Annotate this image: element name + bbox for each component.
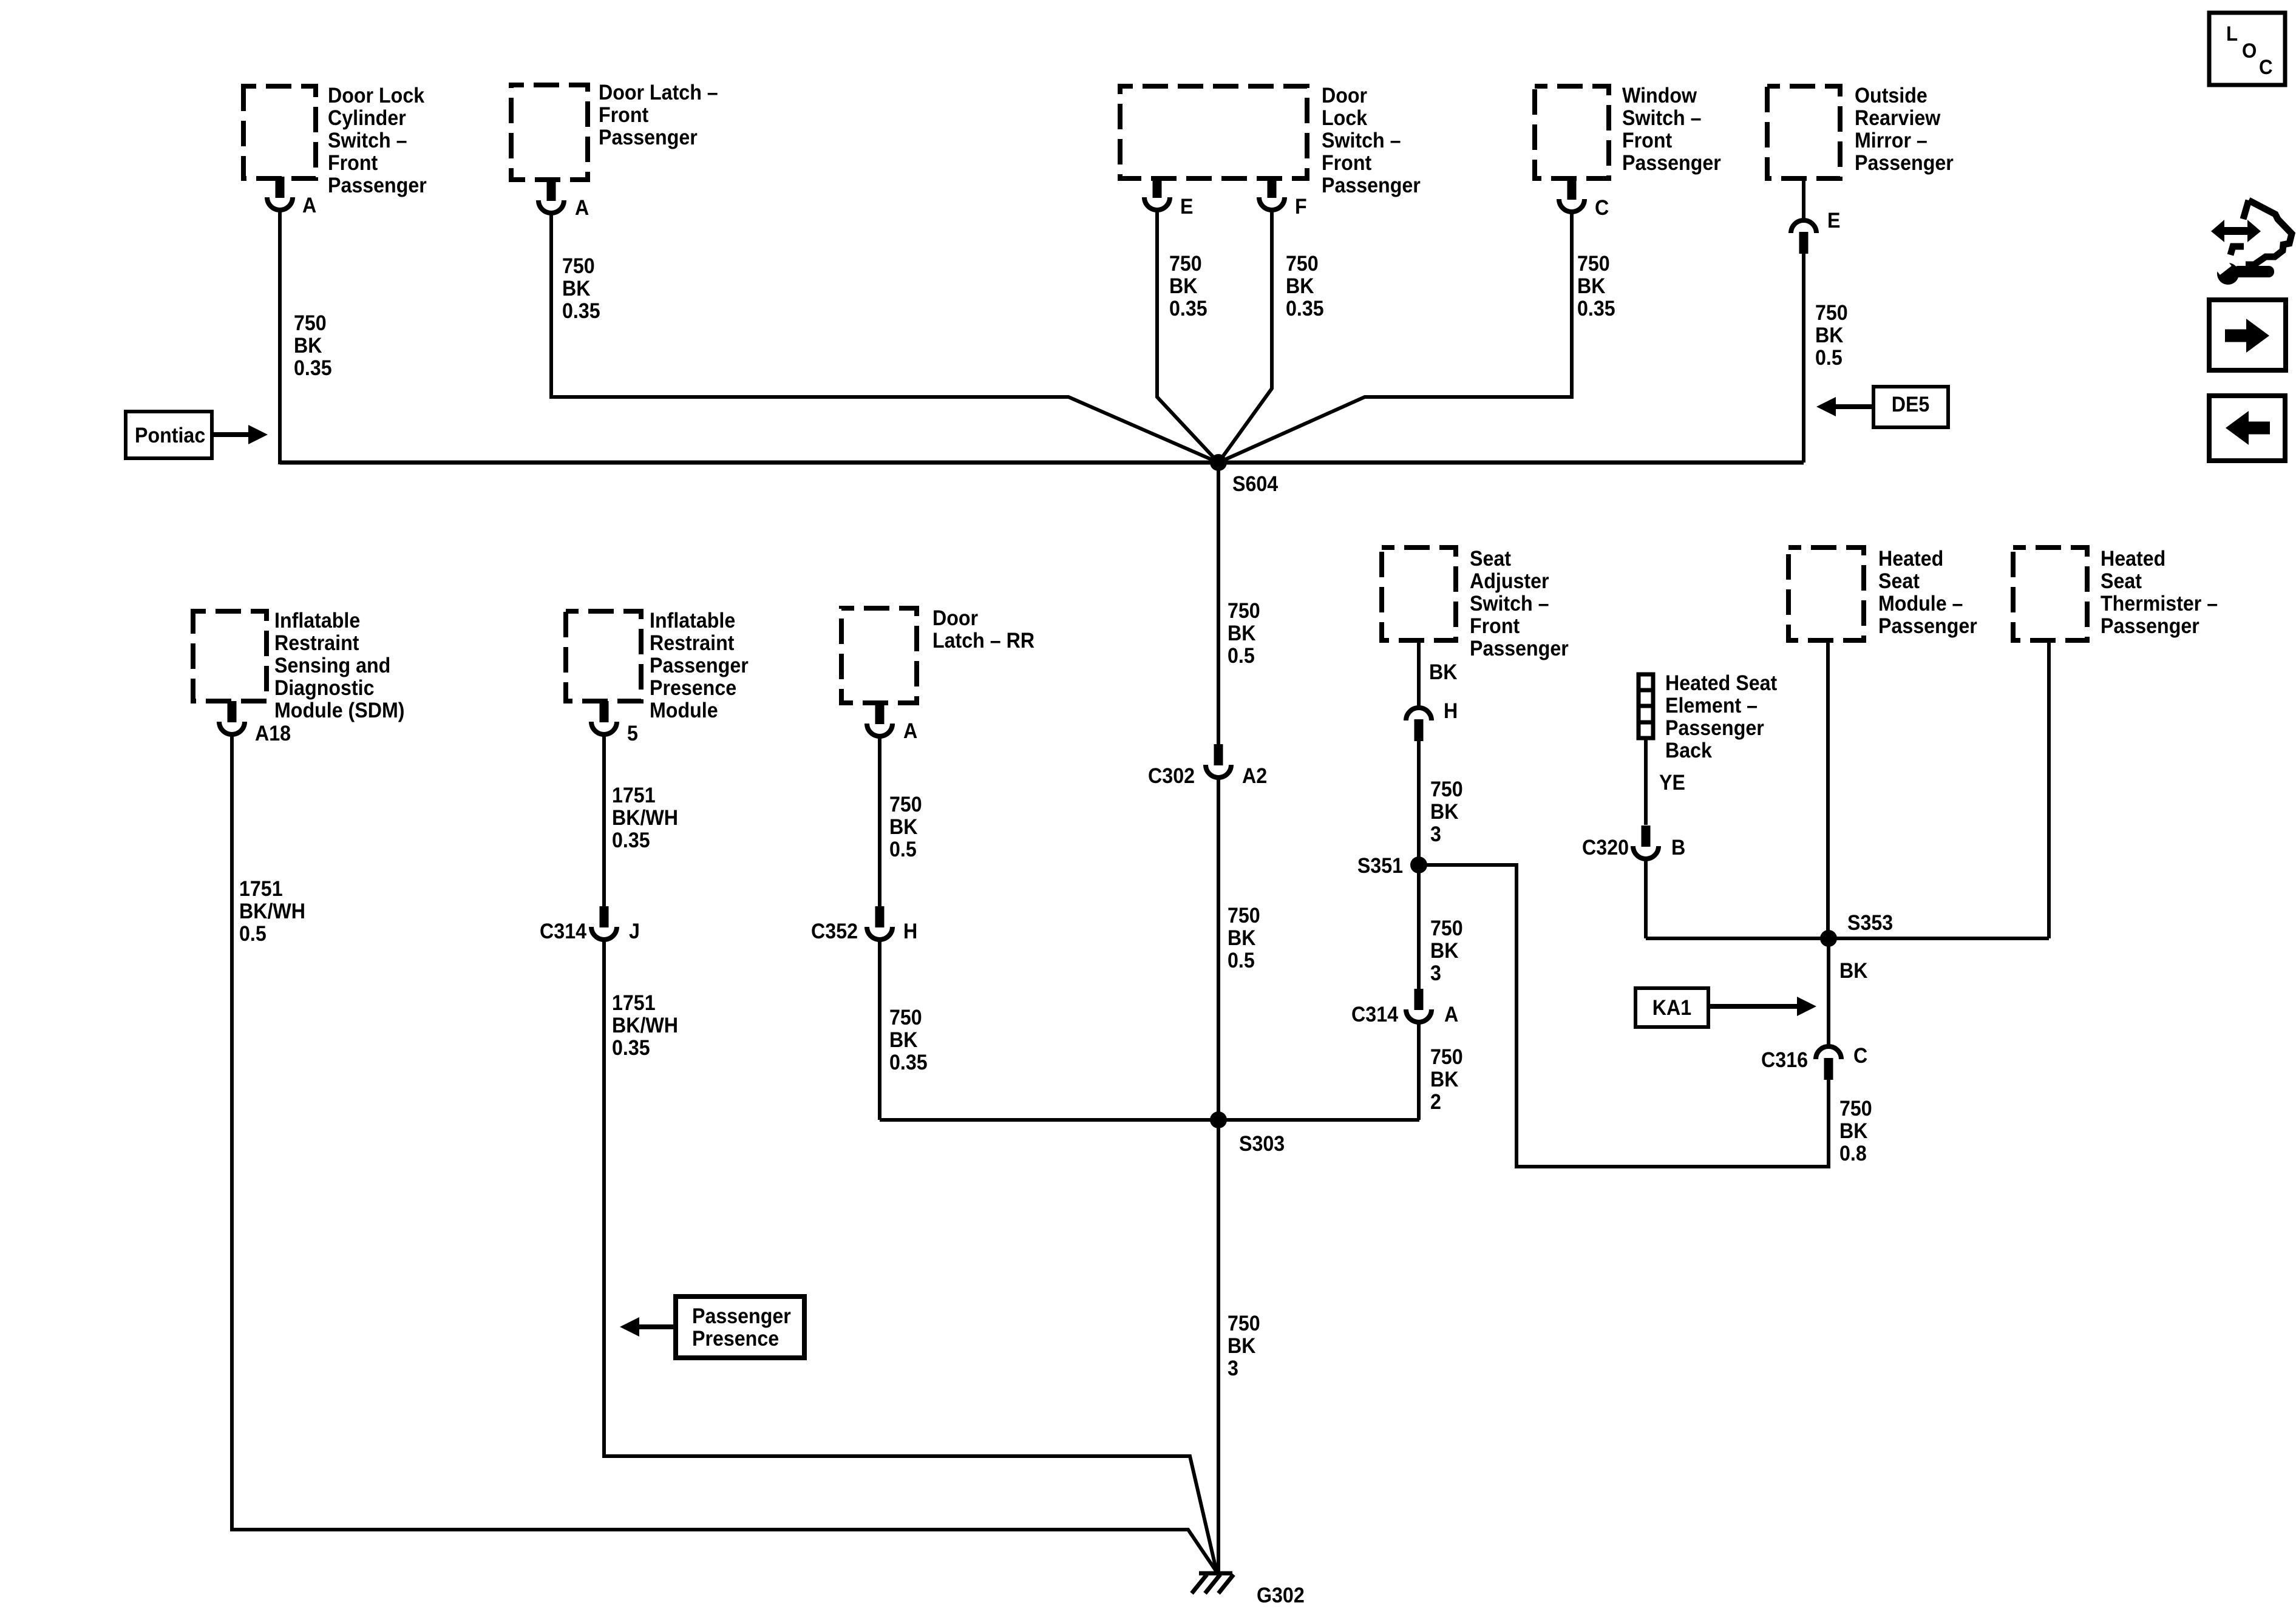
svg-text:750: 750 xyxy=(1815,302,1848,325)
wire BK from splice S353 down to connector C316 xyxy=(1829,938,1867,1046)
svg-text:750: 750 xyxy=(1430,1046,1463,1070)
svg-text:Passenger: Passenger xyxy=(1665,717,1764,741)
svg-text:Door: Door xyxy=(932,607,978,631)
svg-text:Front: Front xyxy=(1322,152,1371,175)
svg-text:E: E xyxy=(1827,209,1840,233)
svg-text:Module (SDM): Module (SDM) xyxy=(274,699,405,723)
wire 750 BK 3 from pin H down to splice S351 xyxy=(1419,741,1463,865)
svg-text:Sensing and: Sensing and xyxy=(274,654,390,678)
wire 750 BK 0.5 from Door Latch RR pin A down to connector C352 xyxy=(880,736,922,926)
svg-text:B: B xyxy=(1671,836,1685,860)
wire from Heated Seat Module down to splice S353 xyxy=(1826,640,1830,938)
component box: Inflatable Restraint Sensing and Diagnostic Module (SDM) xyxy=(193,609,405,723)
svg-text:Door Latch –: Door Latch – xyxy=(599,81,718,105)
svg-text:Passenger: Passenger xyxy=(1878,615,1977,639)
svg-text:Passenger: Passenger xyxy=(650,654,749,678)
svg-text:750: 750 xyxy=(889,793,922,817)
svg-text:3: 3 xyxy=(1430,823,1441,847)
svg-text:A2: A2 xyxy=(1242,765,1267,788)
svg-text:BK: BK xyxy=(1430,940,1458,963)
svg-text:A18: A18 xyxy=(255,722,291,746)
svg-text:Diagnostic: Diagnostic xyxy=(274,677,375,700)
splice S351 xyxy=(1357,855,1427,878)
connector C314 pin J xyxy=(540,906,640,943)
svg-text:YE: YE xyxy=(1659,771,1685,795)
svg-text:C302: C302 xyxy=(1148,765,1195,788)
svg-text:A: A xyxy=(903,720,917,744)
svg-text:BK: BK xyxy=(1169,275,1197,299)
connector pin E of Outside Rearview Mirror xyxy=(1791,178,1840,254)
wire from C320 pin B down to splice S353 run xyxy=(1644,859,1648,938)
svg-text:750: 750 xyxy=(889,1006,922,1030)
svg-text:Passenger: Passenger xyxy=(1622,152,1721,175)
wire 1751 BK/WH 0.35 from C314 pin J down and right to ground G302 xyxy=(604,940,1217,1571)
wire 750 BK 0.5 from C302 down to splice S303 xyxy=(1218,778,1260,1120)
svg-text:Lock: Lock xyxy=(1322,107,1367,131)
wire from splice S351 right and down to C316 branch xyxy=(1419,865,1829,1167)
svg-text:750: 750 xyxy=(1286,253,1319,276)
svg-text:Window: Window xyxy=(1622,84,1697,108)
svg-text:Passenger: Passenger xyxy=(1470,637,1569,661)
DE5 off-page reference box with arrow xyxy=(1816,387,1948,427)
svg-text:BK: BK xyxy=(1430,1068,1458,1092)
connector pin A18 of SDM xyxy=(219,701,291,745)
svg-text:750: 750 xyxy=(294,312,327,336)
svg-text:S353: S353 xyxy=(1847,912,1893,935)
wire BK from Seat Adjuster Switch down to connector pin H xyxy=(1419,640,1457,709)
svg-text:Door Lock: Door Lock xyxy=(328,84,424,108)
wire 750 BK 2 from C314 pin A down to ground run xyxy=(1419,1022,1463,1120)
svg-text:0.35: 0.35 xyxy=(562,300,600,324)
svg-text:Passenger: Passenger xyxy=(692,1305,791,1329)
svg-text:J: J xyxy=(629,920,640,944)
svg-text:Cylinder: Cylinder xyxy=(328,107,406,131)
svg-text:Adjuster: Adjuster xyxy=(1470,570,1549,594)
wire 750 BK 0.35 from Door Lock Cylinder Switch pin A down to bus xyxy=(280,210,332,464)
svg-text:0.35: 0.35 xyxy=(1577,297,1615,321)
Passenger Presence callout box with arrow xyxy=(620,1297,804,1358)
svg-text:G302: G302 xyxy=(1257,1584,1305,1608)
connector pin F of Door Lock Switch xyxy=(1259,177,1307,219)
svg-text:1751: 1751 xyxy=(612,784,656,808)
svg-text:0.5: 0.5 xyxy=(1228,949,1255,973)
svg-text:C320: C320 xyxy=(1582,836,1629,860)
svg-text:Latch – RR: Latch – RR xyxy=(932,629,1034,653)
svg-text:Presence: Presence xyxy=(692,1327,779,1351)
wire 750 BK 3 from splice S351 down to connector C314 pin A xyxy=(1419,865,1463,1009)
wire 1751 BK/WH 0.5 from SDM pin A18 down and right to ground G302 xyxy=(232,734,1217,1573)
svg-text:Module: Module xyxy=(650,699,718,723)
svg-text:Switch –: Switch – xyxy=(1622,107,1702,131)
svg-text:BK: BK xyxy=(562,277,590,301)
svg-text:0.35: 0.35 xyxy=(1286,297,1324,321)
svg-text:C: C xyxy=(1595,197,1609,220)
svg-text:H: H xyxy=(1444,700,1458,724)
legend: previous-page left-arrow box xyxy=(2209,396,2285,461)
svg-text:Heated: Heated xyxy=(2101,547,2165,571)
svg-text:Front: Front xyxy=(1622,129,1672,153)
svg-text:0.5: 0.5 xyxy=(1228,645,1255,668)
connector pin A of Door Latch - RR xyxy=(867,703,917,743)
component box: Window Switch - Front Passenger xyxy=(1535,84,1721,178)
svg-text:Restraint: Restraint xyxy=(650,632,734,656)
svg-text:A: A xyxy=(575,197,589,220)
component box: Outside Rearview Mirror - Passenger xyxy=(1767,84,1954,178)
svg-text:3: 3 xyxy=(1430,962,1441,986)
svg-text:DE5: DE5 xyxy=(1892,393,1930,417)
connector pin A of Door Latch - Front Passenger xyxy=(538,180,589,220)
svg-text:F: F xyxy=(1295,195,1307,219)
wire 750 BK 0.8 below connector C316 xyxy=(1829,1080,1872,1167)
connector C302 pin A2 xyxy=(1148,744,1267,788)
component box: Door Latch - Front Passenger xyxy=(511,81,718,180)
svg-text:750: 750 xyxy=(1228,904,1260,928)
svg-text:BK: BK xyxy=(1228,622,1255,646)
svg-text:750: 750 xyxy=(1839,1097,1872,1121)
svg-text:KA1: KA1 xyxy=(1652,997,1691,1020)
svg-text:BK: BK xyxy=(1839,1120,1867,1144)
svg-text:Front: Front xyxy=(328,152,378,175)
component box: Door Lock Switch - Front Passenger xyxy=(1120,84,1421,198)
svg-text:Element –: Element – xyxy=(1665,694,1758,718)
svg-text:Switch –: Switch – xyxy=(1470,592,1549,616)
wire 750 BK 0.35 from Door Lock Switch pin E to splice S604 xyxy=(1157,210,1218,463)
connector pin 5 of Passenger Presence Module xyxy=(591,701,638,745)
KA1 off-page reference box with arrow xyxy=(1635,988,1816,1027)
Pontiac off-page reference box with arrow xyxy=(126,412,268,458)
svg-text:S303: S303 xyxy=(1239,1133,1285,1156)
svg-text:Inflatable: Inflatable xyxy=(274,609,360,633)
svg-text:Passenger: Passenger xyxy=(599,126,698,150)
component box: Heated Seat Module - Passenger xyxy=(1788,547,1977,640)
svg-text:Module –: Module – xyxy=(1878,592,1963,616)
component box: Door Latch - RR xyxy=(841,607,1034,703)
component box: Heated Seat Thermister - Passenger xyxy=(2013,547,2218,640)
svg-text:0.5: 0.5 xyxy=(889,838,917,862)
svg-text:750: 750 xyxy=(562,255,595,279)
svg-text:0.35: 0.35 xyxy=(889,1051,928,1075)
svg-text:Seat: Seat xyxy=(2101,570,2142,594)
connector C314 pin A xyxy=(1351,989,1458,1026)
svg-text:Front: Front xyxy=(599,104,648,127)
svg-text:Door: Door xyxy=(1322,84,1367,108)
svg-text:Heated: Heated xyxy=(1878,547,1943,571)
svg-text:Front: Front xyxy=(1470,615,1520,639)
svg-text:C314: C314 xyxy=(1351,1003,1398,1027)
svg-text:1751: 1751 xyxy=(239,878,283,901)
svg-text:A: A xyxy=(302,194,316,218)
svg-text:Seat: Seat xyxy=(1470,547,1511,571)
svg-text:Mirror –: Mirror – xyxy=(1855,129,1927,153)
wire from Heated Seat Thermister down to S353 run xyxy=(2047,640,2051,938)
svg-text:0.8: 0.8 xyxy=(1839,1142,1867,1166)
component box: Door Lock Cylinder Switch - Front Passenger xyxy=(243,84,427,198)
svg-text:S351: S351 xyxy=(1357,855,1403,878)
svg-text:0.35: 0.35 xyxy=(612,829,650,853)
wire: main ground bus along y=762 from Door Lock Cylinder wire to Mirror wire xyxy=(280,461,1804,465)
component box: Seat Adjuster Switch - Front Passenger xyxy=(1382,547,1569,661)
svg-text:Switch –: Switch – xyxy=(1322,129,1401,153)
wire: horizontal run at y=1546 from C320 branch through S353 to Thermister branch xyxy=(1646,937,2049,940)
svg-text:C: C xyxy=(2259,55,2273,79)
svg-text:C316: C316 xyxy=(1761,1049,1808,1073)
connector pin H of Seat Adjuster Switch harness xyxy=(1406,700,1458,741)
svg-text:2: 2 xyxy=(1430,1091,1441,1114)
connector pin C of Window Switch xyxy=(1559,178,1609,220)
svg-text:O: O xyxy=(2242,39,2257,63)
svg-text:L: L xyxy=(2226,22,2238,46)
svg-text:Passenger: Passenger xyxy=(2101,615,2199,639)
svg-text:E: E xyxy=(1180,195,1193,219)
wire 1751 BK/WH 0.35 from pin 5 down to connector C314 pin J xyxy=(604,734,678,926)
svg-text:BK: BK xyxy=(1839,960,1867,983)
connector C316 pin C xyxy=(1761,1045,1867,1080)
legend: LOC box xyxy=(2209,13,2285,85)
svg-text:Pontiac: Pontiac xyxy=(135,424,205,448)
svg-text:750: 750 xyxy=(1577,253,1610,276)
wire 750 BK 0.35 from C352 pin H down to ground run xyxy=(880,940,928,1120)
wire 750 BK 0.35 from Door Lock Switch pin F to splice S604 xyxy=(1218,210,1324,463)
component box: Inflatable Restraint Passenger Presence Module xyxy=(566,609,749,723)
legend: next-page right-arrow box xyxy=(2209,300,2286,370)
wire 750 BK 0.35 from Window Switch pin C left to splice S604 xyxy=(1218,212,1615,463)
wire 750 BK 0.5 from splice S604 down to connector C302 xyxy=(1218,463,1260,744)
svg-text:Back: Back xyxy=(1665,739,1712,763)
svg-text:3: 3 xyxy=(1228,1357,1238,1381)
connector C352 pin H xyxy=(811,906,917,943)
svg-text:BK: BK xyxy=(1286,275,1314,299)
svg-text:BK: BK xyxy=(1815,324,1843,348)
svg-text:BK: BK xyxy=(1430,801,1458,824)
svg-text:5: 5 xyxy=(627,722,638,746)
connector pin A of Door Lock Cylinder Switch xyxy=(267,177,316,217)
svg-text:C314: C314 xyxy=(540,920,586,944)
svg-text:0.35: 0.35 xyxy=(612,1037,650,1060)
svg-text:BK: BK xyxy=(1228,927,1255,951)
ground G302 xyxy=(1192,1573,1305,1607)
svg-text:Thermister –: Thermister – xyxy=(2101,592,2218,616)
svg-text:A: A xyxy=(1444,1003,1458,1027)
svg-text:Switch –: Switch – xyxy=(328,129,407,153)
svg-text:H: H xyxy=(903,920,917,944)
svg-text:Heated Seat: Heated Seat xyxy=(1665,672,1777,696)
svg-text:C352: C352 xyxy=(811,920,858,944)
svg-text:0.35: 0.35 xyxy=(1169,297,1207,321)
svg-text:Passenger: Passenger xyxy=(1855,152,1954,175)
wire 750 BK 0.5 from Mirror pin E down to bus corner xyxy=(1804,254,1848,463)
svg-text:BK/WH: BK/WH xyxy=(612,1014,678,1038)
svg-text:Restraint: Restraint xyxy=(274,632,359,656)
svg-text:BK: BK xyxy=(889,1029,917,1053)
svg-text:0.5: 0.5 xyxy=(1815,347,1843,370)
svg-text:BK: BK xyxy=(889,816,917,839)
svg-text:BK: BK xyxy=(1577,275,1605,299)
svg-text:750: 750 xyxy=(1228,600,1260,623)
splice S604 xyxy=(1210,454,1278,496)
svg-text:Passenger: Passenger xyxy=(1322,174,1421,198)
svg-text:BK: BK xyxy=(1429,661,1457,685)
svg-text:750: 750 xyxy=(1169,253,1202,276)
wire YE from Heated Seat Element down to connector C320 xyxy=(1646,738,1685,825)
splice S353 xyxy=(1820,912,1893,947)
svg-text:Inflatable: Inflatable xyxy=(650,609,735,633)
svg-text:Presence: Presence xyxy=(650,677,736,700)
svg-text:S604: S604 xyxy=(1232,473,1278,497)
svg-text:Seat: Seat xyxy=(1878,570,1920,594)
splice S303 xyxy=(1210,1111,1285,1156)
legend icon: vehicle outline with double arrow and wrench xyxy=(2211,200,2292,285)
wire: horizontal ground run at y=1845 between Door Latch RR branch and C314 branch xyxy=(880,1118,1419,1122)
svg-text:0.35: 0.35 xyxy=(294,357,332,381)
svg-text:BK/WH: BK/WH xyxy=(612,807,678,830)
svg-text:0.5: 0.5 xyxy=(239,923,267,946)
svg-text:Rearview: Rearview xyxy=(1855,107,1941,131)
svg-text:Passenger: Passenger xyxy=(328,174,427,198)
svg-text:750: 750 xyxy=(1430,778,1463,802)
component: Heated Seat Element - Passenger Back xyxy=(1639,672,1777,763)
svg-text:BK: BK xyxy=(1228,1335,1255,1358)
svg-text:C: C xyxy=(1853,1045,1867,1068)
connector pin E of Door Lock Switch xyxy=(1144,177,1193,219)
svg-text:750: 750 xyxy=(1430,917,1463,941)
svg-text:BK: BK xyxy=(294,334,322,358)
svg-text:Outside: Outside xyxy=(1855,84,1927,108)
wire 750 BK 0.35 from Door Latch pin A down and right to splice S604 xyxy=(551,213,1218,463)
svg-text:BK/WH: BK/WH xyxy=(239,900,305,924)
wire 750 BK 3 from splice S303 down to ground G302 xyxy=(1218,1120,1260,1573)
connector C320 pin B xyxy=(1582,825,1685,859)
svg-text:1751: 1751 xyxy=(612,992,656,1015)
svg-text:750: 750 xyxy=(1228,1312,1260,1336)
